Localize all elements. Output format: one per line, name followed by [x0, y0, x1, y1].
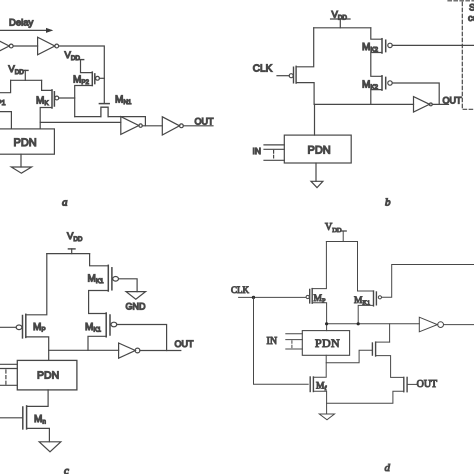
- transistor MP channel: [25, 314, 27, 337]
- transistor MK channel: [51, 90, 53, 108]
- svg-text:VDD: VDD: [332, 10, 348, 22]
- dynamic node wire: [314, 103, 413, 105]
- svg-text:Mn: Mn: [34, 414, 46, 426]
- dashed skew control box: [448, 0, 474, 2]
- wire MK1 upper drain to MK1 lower source: [89, 291, 109, 314]
- svg-text:PDN: PDN: [308, 145, 331, 157]
- OUT NMOS gate plate: [406, 377, 408, 391]
- wire dynamic node to keeper NMOS top: [389, 324, 391, 342]
- svg-text:IN: IN: [267, 336, 278, 347]
- wire VDD to rail: [339, 19, 341, 28]
- CLK wire: [239, 296, 306, 298]
- VDD bar of MP1/MK: [23, 69, 28, 71]
- wire rail to MP source: [26, 254, 47, 315]
- inverter U6 output bubble: [135, 348, 140, 353]
- svg-text:MK1: MK1: [85, 322, 102, 334]
- wire rail to MP source: [312, 242, 327, 289]
- transistor MP channel: [311, 289, 313, 304]
- IN ellipsis dashes: [5, 370, 7, 385]
- IN wire 2: [264, 148, 284, 150]
- transistor MK gate bubble: [55, 96, 59, 100]
- output inverter U5: [414, 97, 430, 112]
- ground: [319, 414, 334, 420]
- dashed skew control box left edge: [462, 2, 474, 109]
- transistor Mn gate plate: [22, 407, 24, 429]
- wire MK1 drain to dynamic node: [358, 305, 373, 323]
- top rail wire: [326, 241, 357, 243]
- PDN block: [0, 129, 54, 154]
- wire rail to MP1 source (exits left): [0, 80, 11, 92]
- wire keeper NMOS bottom to OUT NMOS drain: [376, 356, 404, 378]
- junction MP drain node: [325, 322, 328, 325]
- wire PDN bottom to Mn drain: [27, 390, 48, 407]
- wire MK2 lower gate to OUT feedback: [392, 83, 439, 104]
- output inverter U7: [419, 317, 437, 332]
- IN wire 1 (clipped): [0, 363, 17, 365]
- wire U6 output to OUT: [140, 350, 181, 352]
- transistor MP gate bubble: [306, 295, 309, 298]
- wire MK1 lower drain to dynamic node: [88, 336, 106, 350]
- transistor MP2 gate bubble: [96, 76, 100, 80]
- svg-text:VDD: VDD: [65, 50, 81, 62]
- wire U2 output to MP2 gate and MN1 gate: [59, 46, 105, 103]
- IN wire 3 (clipped): [0, 384, 17, 386]
- transistor Mn channel: [26, 406, 28, 429]
- junction MK1 drain node: [357, 322, 360, 325]
- PDN block: [284, 135, 351, 163]
- transistor MK1 lower channel: [105, 313, 107, 337]
- wire PDN to ground: [315, 163, 317, 181]
- junction CLK node: [252, 296, 255, 299]
- wire rail to MK1 source: [358, 242, 374, 292]
- transistor MN1 gate plate: [99, 103, 109, 105]
- inverter U2 output bubble: [55, 44, 59, 48]
- svg-text:OUT: OUT: [175, 339, 195, 349]
- top rail wire: [314, 27, 371, 29]
- svg-text:Mf: Mf: [316, 381, 327, 392]
- IN wire 1: [286, 333, 303, 335]
- svg-text:MN1: MN1: [115, 95, 132, 107]
- wire MP gate from left edge: [0, 326, 16, 328]
- MK2 lower gate bubble: [388, 81, 392, 85]
- clock PMOS gate plate: [293, 67, 295, 83]
- wire MP drain to dynamic node and PDN: [26, 337, 49, 361]
- svg-text:PDN: PDN: [14, 137, 37, 149]
- transistor MP gate plate: [22, 316, 24, 338]
- GND ground symbol: [126, 292, 146, 300]
- svg-text:MK: MK: [36, 96, 49, 108]
- svg-text:MP: MP: [33, 322, 46, 334]
- svg-text:Delay: Delay: [9, 18, 34, 29]
- transistor Mf channel: [312, 377, 314, 392]
- svg-text:VDD: VDD: [325, 222, 342, 234]
- inverter U2: [38, 37, 55, 55]
- wire foot node to keeper NMOS gate: [326, 350, 372, 362]
- wire MP2 drain down to keeper node: [75, 86, 93, 117]
- wire keeper NMOS top bar: [376, 341, 390, 343]
- VDD bar: [68, 248, 75, 250]
- wire VDD to rail: [342, 231, 344, 242]
- transistor MK1 gate plate: [375, 292, 377, 305]
- transistor MP gate plate: [309, 289, 311, 303]
- wire CLK down to Mf gate: [254, 297, 309, 384]
- wire OUT NMOS gate to OUT: [407, 383, 417, 385]
- wire keeper node to MN1 source: [75, 116, 101, 118]
- svg-text:OUT: OUT: [443, 95, 463, 105]
- transistor MK1 channel: [373, 291, 375, 306]
- inverter U1 output bubble: [9, 44, 13, 48]
- wire VDD to MP2 source: [81, 60, 93, 73]
- wire U1 to U2: [13, 45, 37, 47]
- top rail wire: [11, 79, 42, 81]
- svg-text:VDD: VDD: [67, 231, 83, 243]
- svg-text:MK1: MK1: [88, 273, 105, 285]
- wire rail to MK source: [42, 80, 52, 90]
- IN wire 1: [264, 144, 284, 146]
- svg-text:CLK: CLK: [231, 285, 250, 295]
- transistor MK1 lower gate plate: [109, 315, 111, 335]
- clock PMOS gate bubble: [289, 74, 293, 78]
- wire U3 output to U4 input: [142, 125, 162, 127]
- inverter U3 output bubble: [139, 124, 142, 127]
- svg-text:PDN: PDN: [37, 369, 59, 381]
- keeper NMOS gate plate: [371, 343, 373, 355]
- ground: [11, 167, 31, 173]
- IN ellipsis dashes: [291, 341, 293, 349]
- delay arrowhead: [46, 28, 53, 33]
- wire clock PMOS drain to dynamic node: [296, 83, 314, 105]
- dynamic node wire: [327, 323, 420, 325]
- IN wire 2: [286, 339, 303, 341]
- output inverter U6: [119, 343, 136, 358]
- transistor MK1 upper channel: [107, 265, 109, 291]
- svg-text:IN: IN: [253, 146, 262, 156]
- transistor MK2 lower channel: [381, 76, 383, 90]
- IN wire 3: [286, 348, 303, 350]
- svg-text:c: c: [64, 465, 69, 474]
- svg-text:MP2: MP2: [73, 75, 90, 87]
- wire Mn gate from left edge: [0, 417, 23, 419]
- wire rail to MK1 upper source: [90, 254, 109, 266]
- wire dynamic node to PDN top: [314, 104, 316, 135]
- IN wire 3: [264, 159, 284, 161]
- MK1 upper gate bubble: [113, 277, 119, 282]
- wire rail to MK2 upper source: [371, 28, 382, 39]
- transistor MP2 channel: [91, 72, 93, 85]
- wire MP2 gate bubble to delay line: [99, 77, 104, 79]
- wire MN1 drain to U3 output: [108, 117, 145, 126]
- MK2 upper gate bubble: [388, 43, 392, 47]
- svg-text:Sk: Sk: [469, 3, 474, 14]
- inverter U1 (clipped at left edge): [0, 37, 9, 55]
- top rail wire: [47, 253, 90, 255]
- wire PDN bottom to Mf drain: [313, 355, 326, 377]
- ground: [39, 442, 61, 452]
- wire U7 output exits right: [444, 324, 474, 326]
- transistor MP gate bubble: [16, 325, 22, 330]
- inverter U3: [121, 117, 139, 135]
- wire MK1 lower gate to OUT feedback: [117, 325, 167, 351]
- inverter U4 output bubble: [180, 124, 184, 128]
- MK1 gate bubble: [378, 296, 381, 299]
- keeper NMOS channel: [375, 342, 377, 356]
- transistor MK2 lower gate plate: [385, 77, 387, 88]
- wire dynamic node to inverter U3 input: [40, 121, 121, 123]
- wire MP1 drain (enters from left) to PDN top: [0, 112, 11, 129]
- svg-text:OUT: OUT: [195, 117, 215, 127]
- transistor MN1 channel bump: [101, 107, 108, 116]
- svg-text:co: co: [468, 13, 474, 24]
- wire rail to clock PMOS source: [296, 28, 314, 67]
- inverter U7 output bubble: [438, 322, 444, 328]
- svg-text:P1: P1: [0, 100, 6, 107]
- inverter U4: [162, 117, 179, 135]
- wire MP drain to dynamic node and PDN: [312, 303, 326, 331]
- wire Mf source to ground: [313, 391, 326, 414]
- wire MK2 upper gate to skew control box: [392, 44, 474, 46]
- wire PDN to ground: [20, 154, 22, 167]
- transistor MK2 upper gate plate: [385, 40, 387, 51]
- OUT NMOS channel: [403, 377, 405, 391]
- wire U4 output to OUT: [183, 125, 213, 127]
- VDD bar: [341, 230, 347, 232]
- wire U5 output to OUT: [432, 103, 448, 105]
- svg-text:CLK: CLK: [253, 63, 273, 74]
- svg-text:b: b: [385, 196, 391, 208]
- PDN block: [302, 331, 349, 356]
- VDD bar of MP2: [77, 59, 83, 61]
- transistor MP2 gate plate: [94, 74, 96, 84]
- wire MK1 upper gate to GND: [119, 279, 138, 292]
- transistor MK gate plate: [53, 92, 55, 106]
- delay arrow wire: [0, 29, 51, 31]
- wire Mn source to ground: [27, 428, 50, 441]
- wire MK2 lower drain to dynamic node: [371, 90, 382, 105]
- svg-text:GND: GND: [126, 301, 147, 311]
- wire MK2 upper drain to MK2 lower source: [371, 53, 382, 77]
- transistor MK2 upper channel: [381, 39, 383, 53]
- dynamic node wire: [49, 349, 119, 351]
- wire CLK to gate bubble: [277, 75, 289, 77]
- svg-text:OUT: OUT: [417, 379, 438, 390]
- wire OUT NMOS source to ground rail: [327, 391, 404, 403]
- clock PMOS channel: [295, 66, 297, 83]
- wire MK drain to PDN top: [40, 108, 52, 129]
- wire VDD to rail: [71, 249, 73, 254]
- VDD bar: [331, 18, 350, 20]
- transistor MK1 upper gate plate: [111, 268, 113, 290]
- IN ellipsis dashes: [273, 151, 275, 161]
- wire MK gate bubble to keeper node: [59, 97, 75, 99]
- svg-text:PDN: PDN: [315, 336, 340, 350]
- MK1 lower gate bubble: [111, 322, 117, 327]
- wire VDD to top rail: [24, 70, 26, 80]
- PDN block: [17, 360, 77, 390]
- IN wire 2 (clipped): [0, 368, 17, 370]
- transistor Mf gate plate: [309, 377, 311, 392]
- svg-text:MK1: MK1: [354, 296, 370, 307]
- ground: [311, 181, 323, 187]
- svg-text:d: d: [385, 462, 391, 474]
- wire MK1 gate to keeper feedback (exits right): [382, 265, 474, 298]
- inverter U5 output bubble: [429, 103, 432, 106]
- svg-text:a: a: [62, 196, 68, 208]
